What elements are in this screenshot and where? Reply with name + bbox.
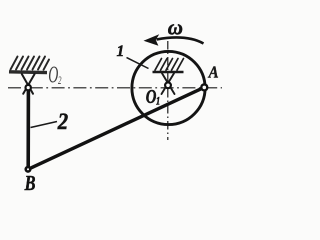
svg-text:1: 1 (117, 43, 125, 60)
label B (24, 172, 36, 196)
ground bar at O1 (153, 71, 184, 74)
crank disc 1 (circle) (132, 51, 205, 124)
label O2 (48, 63, 61, 89)
omega arrowhead (144, 34, 160, 46)
omega rotation arc (157, 37, 204, 43)
svg-text:2: 2 (57, 109, 68, 134)
label A (208, 63, 219, 81)
svg-text:ω: ω (168, 16, 183, 40)
ground hatching at O2 (11, 57, 50, 70)
leader line for label 2 (31, 122, 58, 128)
label omega (168, 16, 183, 40)
leader line for label 1 (127, 58, 149, 69)
svg-text:2: 2 (58, 74, 62, 87)
label 2 (57, 109, 68, 134)
label O1 (146, 85, 160, 108)
svg-text:O: O (146, 85, 157, 108)
svg-text:O: O (48, 63, 58, 89)
svg-text:1: 1 (156, 95, 160, 108)
svg-text:B: B (24, 172, 36, 196)
support legs at O1 (crossing at pin) (162, 73, 175, 94)
vertical centerline through O1 (167, 41, 169, 140)
pivot O2 (pin circle) (26, 85, 31, 90)
support legs at O2 (crossing at pin) (22, 74, 35, 94)
crank pin A (circle) (201, 84, 207, 90)
connecting rod BA (28, 87, 204, 169)
pivot O1 (pin circle) (165, 82, 171, 88)
svg-text:A: A (208, 63, 219, 81)
label 1 (117, 43, 125, 60)
horizontal centerline through O2, O1, A (8, 87, 222, 89)
ground bar at O2 (9, 70, 47, 74)
ground hatching at O1 (155, 59, 184, 71)
link 2 (vertical link O2-B) (26, 88, 30, 169)
pivot B (pin circle) (26, 167, 31, 172)
